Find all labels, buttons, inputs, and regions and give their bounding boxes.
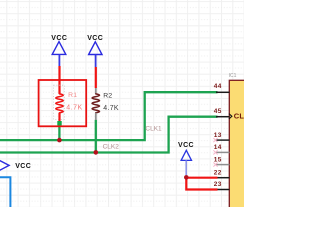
svg-text:VCC: VCC [178,142,194,149]
wire net CLK1 (pin 44 to left edge) [0,92,218,140]
pin 45 clock symbol [229,114,232,119]
pin 45 [216,116,230,118]
svg-text:4.7K: 4.7K [66,105,82,112]
svg-text:CLK2: CLK2 [103,143,120,150]
svg-text:15: 15 [214,156,222,163]
junction node on CLK2 [94,150,99,155]
svg-text:CL: CL [234,112,244,121]
wire net CLK2 (pin 45 to left edge) [0,117,218,153]
pin 14 [216,151,230,153]
svg-text:R1: R1 [68,92,77,99]
svg-text:IC1: IC1 [229,73,237,79]
wire R1 stub to CLK1 [58,125,60,140]
resistor R1 (selected, red) [54,85,65,119]
svg-text:13: 13 [214,132,222,139]
connector outline (bottom left, blue) [0,177,10,208]
svg-text:R2: R2 [103,93,112,100]
pin 13 [216,139,230,141]
svg-text:14: 14 [214,144,222,151]
resistor R2 [95,88,97,94]
wire VCC1 to R1 (red) [58,66,60,94]
svg-text:22: 22 [214,169,222,176]
svg-text:CLK1: CLK1 [145,125,162,132]
pin 22 [216,177,230,179]
svg-text:23: 23 [214,181,222,188]
pin 15 [216,164,230,166]
grid background [0,0,244,207]
svg-text:45: 45 [214,108,222,115]
svg-text:44: 44 [214,83,222,90]
wire VCC2 to R2 (red) [95,67,97,88]
pin 44 [216,91,230,93]
svg-text:VCC: VCC [15,163,31,170]
svg-text:4.7K: 4.7K [103,105,119,112]
wire VCC to pin 22 (red) [186,177,217,179]
IC IC1 body [229,80,246,209]
junction node VCC3 [184,175,189,180]
junction node on CLK1 [57,138,62,143]
wire R2 bottom to CLK2 [95,120,97,153]
wire VCC to pin 23 (red) [186,178,217,190]
pin 23 [216,189,230,191]
selection box around R1 [39,80,87,126]
